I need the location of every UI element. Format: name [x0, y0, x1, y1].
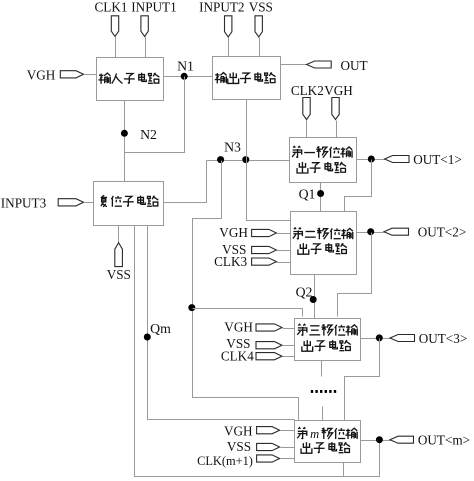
- arrow CLK2 input: [303, 98, 310, 120]
- svg-text:N1: N1: [177, 59, 194, 74]
- svg-text:Q1: Q1: [299, 187, 316, 202]
- svg-text:CLK4: CLK4: [221, 349, 254, 364]
- arrow CLK4 into U6: [256, 353, 282, 360]
- arrow VSS top input: [255, 16, 262, 37]
- block U7 m-th shift output sub-circuit 第m移位输出子电路: [295, 421, 361, 463]
- arrow OUT1: [385, 156, 409, 163]
- wire U5 to OUT2: [357, 232, 385, 234]
- wire N1 branch: [125, 77, 185, 153]
- wire N3 down branch: [193, 161, 299, 421]
- wire INPUT1 to U1: [145, 37, 147, 58]
- svg-text:VGH: VGH: [224, 423, 253, 438]
- wire VSS to U2: [259, 38, 261, 57]
- wire VSS to U7: [281, 447, 295, 449]
- wire CLK3 to U5: [277, 262, 291, 264]
- arrow VGH into U1: [60, 71, 83, 78]
- node Q1: [317, 190, 324, 197]
- wire U1 to U2: [164, 76, 213, 78]
- node OUTm: [376, 436, 383, 443]
- svg-text:OUT: OUT: [340, 58, 367, 73]
- wire Qm: [148, 226, 295, 420]
- block U5 second shift output sub-circuit 第二移位输出子电路: [291, 212, 357, 275]
- svg-text:CLK3: CLK3: [214, 254, 247, 269]
- wire U2 to OUT: [281, 64, 308, 66]
- arrow VSS into U6: [256, 342, 282, 349]
- ellipsis: [311, 390, 313, 393]
- node junction U2 bottom: [242, 156, 249, 163]
- arrow VGH into U5: [252, 229, 277, 236]
- arrow VGH top input: [332, 98, 339, 120]
- wire U3 to VSS: [118, 226, 120, 244]
- wire CLK1 to U1: [115, 37, 117, 58]
- node Q2: [310, 296, 317, 303]
- svg-text:OUT<m>: OUT<m>: [418, 433, 470, 448]
- wire U6 to OUT3: [361, 338, 391, 340]
- wire VGH to U5: [277, 233, 291, 235]
- block U3 reset sub-circuit 复位子电路: [94, 182, 164, 226]
- node N3 branch junction: [188, 304, 195, 311]
- node OUT2: [367, 228, 374, 235]
- node N1: [181, 73, 188, 80]
- arrow OUT2: [384, 228, 409, 235]
- arrow OUTm: [390, 436, 414, 443]
- svg-text:OUT<1>: OUT<1>: [413, 152, 462, 167]
- wire VGH to U4: [336, 121, 338, 138]
- wire VGH to U7: [281, 430, 295, 432]
- block U2 output sub-circuit 输出子电路: [213, 57, 281, 100]
- wire CLK4 to U6: [283, 356, 295, 358]
- arrow INPUT2 input: [225, 16, 232, 37]
- svg-text:Qm: Qm: [150, 321, 171, 336]
- wire VGH to U1: [85, 74, 97, 76]
- wire VGH to U6: [283, 328, 295, 330]
- svg-text:OUT<2>: OUT<2>: [418, 225, 467, 240]
- svg-text:INPUT2: INPUT2: [199, 0, 244, 15]
- block U4 first shift output sub-circuit 第一移位输出子电路: [290, 138, 357, 183]
- arrow OUT3: [390, 335, 415, 342]
- svg-text:VGH: VGH: [27, 67, 56, 82]
- svg-text:m: m: [310, 427, 319, 441]
- wire VSS to U6: [283, 345, 295, 347]
- svg-text:CLK1: CLK1: [95, 0, 128, 15]
- arrow CLK3 into U5: [252, 258, 277, 265]
- node OUT1: [368, 156, 375, 163]
- svg-text:VGH: VGH: [224, 320, 253, 335]
- svg-text:CLK2: CLK2: [291, 83, 324, 98]
- wire U1 to U3: [124, 101, 126, 182]
- svg-text:VGH: VGH: [219, 225, 248, 240]
- wire CLK(m+1) to U7: [281, 458, 295, 460]
- arrow OUT: [307, 61, 332, 68]
- arrow VSS into U5: [252, 246, 277, 253]
- wire INPUT3 to U3: [85, 202, 94, 204]
- wire OUT3 carry to U7: [345, 339, 380, 421]
- svg-text:OUT<3>: OUT<3>: [419, 331, 468, 346]
- svg-text:Q2: Q2: [296, 285, 313, 300]
- svg-text:VSS: VSS: [249, 0, 273, 15]
- svg-text:INPUT1: INPUT1: [131, 0, 176, 15]
- wire bottom return: [135, 226, 380, 477]
- svg-text:CLK(m+1): CLK(m+1): [197, 454, 253, 468]
- node N3: [217, 156, 224, 163]
- arrow VSS into U7: [257, 443, 280, 450]
- wire N3 net to U4: [207, 160, 290, 162]
- wire Q chain to U7: [322, 407, 324, 421]
- svg-text:INPUT3: INPUT3: [1, 196, 47, 211]
- svg-text:N2: N2: [140, 127, 157, 142]
- node OUT3: [376, 334, 383, 341]
- wire VSS to U5: [277, 250, 291, 252]
- wire N3 to U3 right: [164, 161, 207, 203]
- svg-text:N3: N3: [224, 140, 241, 155]
- arrow INPUT3 into U3: [58, 199, 83, 206]
- wire OUT1 carry to U5: [345, 160, 372, 212]
- wire CLK2 to U4: [306, 121, 308, 138]
- wire Q1: [320, 183, 322, 212]
- wire U4 to OUT1: [357, 159, 386, 161]
- arrow VGH into U6: [256, 324, 282, 331]
- svg-text:VSS: VSS: [107, 267, 131, 282]
- wire Q2: [314, 275, 316, 319]
- wire OUT2 carry to U6: [338, 233, 372, 317]
- wire N3 branch to U6 top: [193, 309, 303, 317]
- arrow CLK(m+1) into U7: [257, 455, 280, 462]
- arrow VSS below U3: [115, 243, 123, 267]
- arrow VGH into U7: [257, 427, 280, 434]
- node N2: [121, 130, 128, 137]
- wire U7 to OUTm: [361, 440, 391, 442]
- wire INPUT2 to U2: [228, 38, 230, 57]
- arrow CLK1 input: [111, 16, 118, 37]
- wire stub to U7 bottom: [343, 463, 345, 477]
- svg-text:VSS: VSS: [227, 439, 251, 454]
- wire Q3 stub: [321, 361, 323, 377]
- block U6 third shift output sub-circuit 第三移位输出子电路: [295, 319, 361, 361]
- node Qm: [144, 334, 151, 341]
- wire U2 bottom to U5 left: [247, 100, 291, 221]
- block U1 input sub-circuit 输入子电路: [97, 58, 164, 101]
- svg-text:VGH: VGH: [324, 83, 353, 98]
- arrow INPUT1 input: [141, 16, 148, 37]
